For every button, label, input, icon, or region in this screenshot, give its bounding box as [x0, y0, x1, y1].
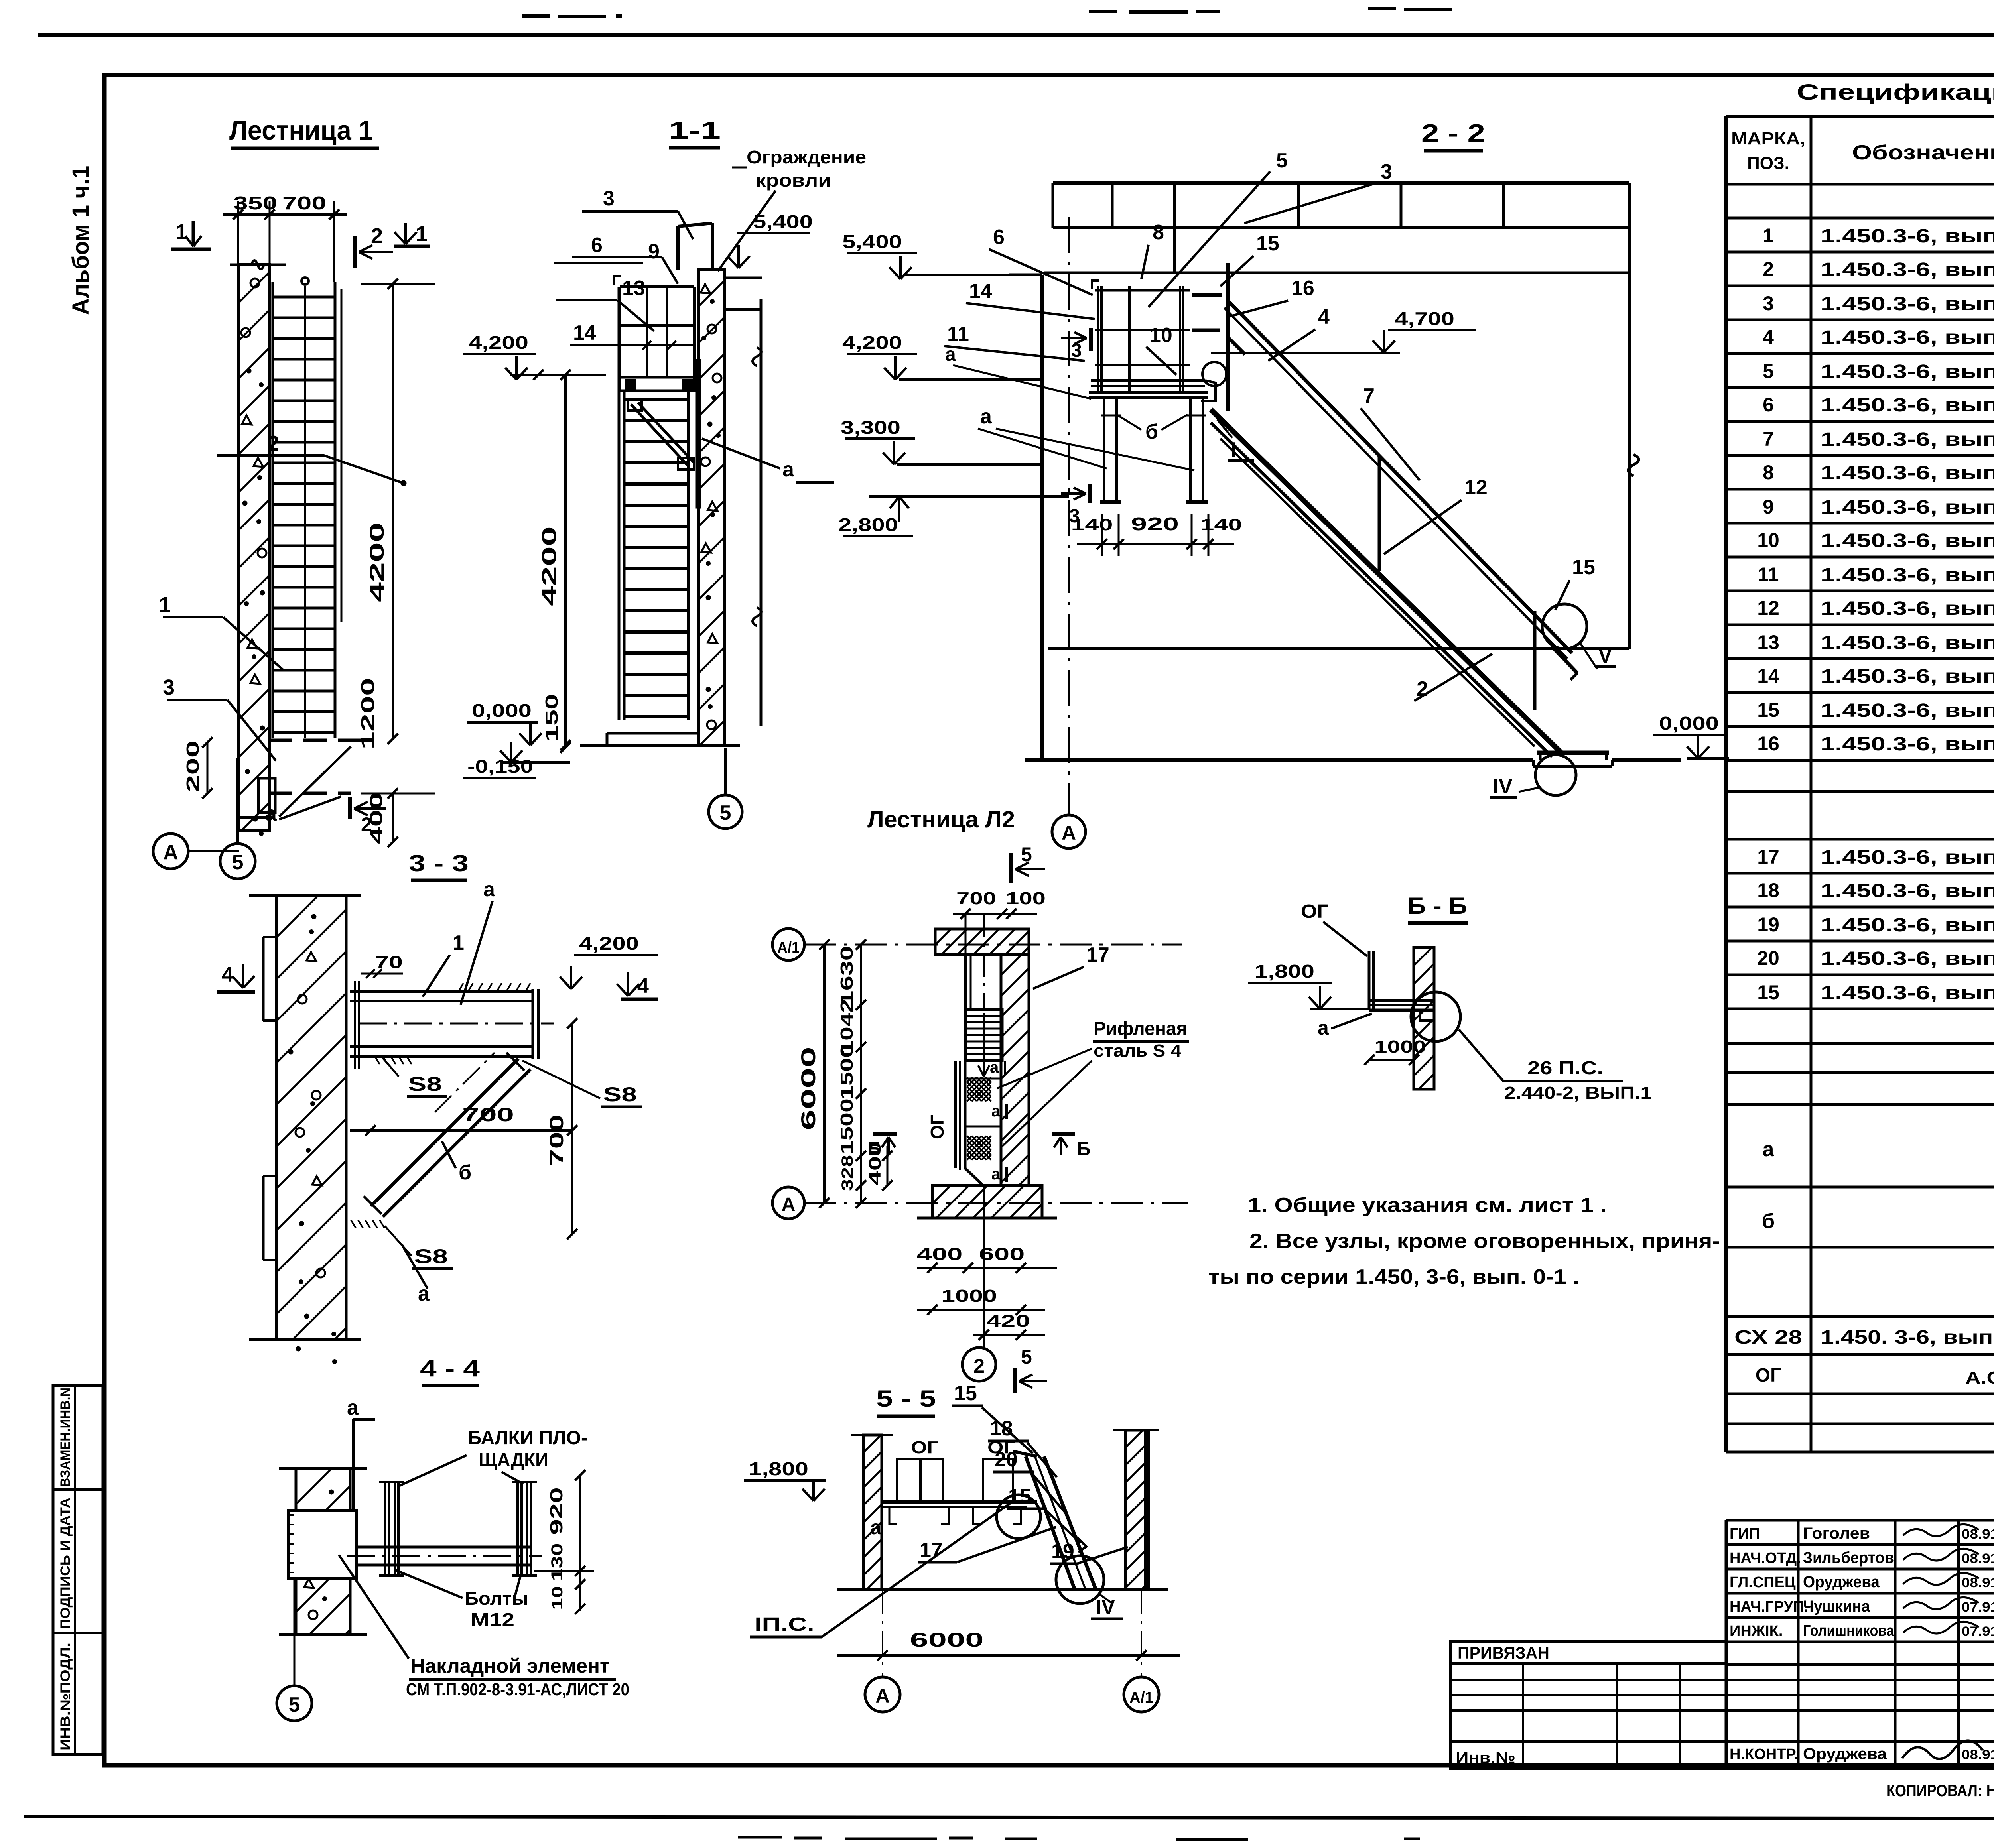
svg-text:920: 920	[547, 1487, 566, 1535]
svg-text:а: а	[1763, 1138, 1775, 1161]
svg-text:А: А	[782, 1194, 796, 1215]
svg-text:4: 4	[637, 974, 649, 998]
svg-text:1.450.3-6, вып.1: 1.450.3-6, вып.1	[1821, 915, 1994, 936]
svg-text:700: 700	[546, 1114, 567, 1166]
svg-text:1.450.3-6, вып.1: 1.450.3-6, вып.1	[1821, 598, 1994, 619]
1-1 ladder side rungs	[624, 398, 688, 401]
svg-text:9: 9	[648, 240, 660, 263]
svg-text:13: 13	[1757, 631, 1779, 653]
svg-text:а: а	[483, 878, 495, 901]
plan Л2 axis dash-dot lines	[804, 944, 1182, 946]
svg-text:1000: 1000	[1374, 1037, 1426, 1057]
2-2 platform slab	[1091, 379, 1205, 382]
svg-text:7: 7	[1763, 428, 1774, 450]
svg-text:1.450.3-6, вып.1: 1.450.3-6, вып.1	[1821, 666, 1994, 687]
svg-text:20: 20	[995, 1448, 1018, 1471]
svg-text:А: А	[1062, 822, 1076, 844]
svg-text:5: 5	[232, 851, 244, 874]
svg-text:ВЗАМЕН.ИНВ.N: ВЗАМЕН.ИНВ.N	[58, 1387, 73, 1487]
svg-text:ты по серии 1.450, 3-6, вып: ты по серии 1.450, 3-6, вып. 0-1 .	[1208, 1265, 1579, 1289]
svg-text:Лестница Л2: Лестница Л2	[867, 807, 1015, 832]
svg-text:ИНВ.№ПОДЛ.: ИНВ.№ПОДЛ.	[58, 1643, 73, 1750]
svg-text:Рифленая: Рифленая	[1094, 1018, 1187, 1039]
1-1 roof stack outline	[676, 226, 680, 270]
svg-text:1.450.3-6, вып.1: 1.450.3-6, вып.1	[1821, 530, 1994, 551]
plan Л2 foundation band	[932, 1185, 1042, 1218]
svg-text:10: 10	[1149, 324, 1172, 347]
svg-text:11: 11	[947, 323, 969, 346]
svg-text:17: 17	[1086, 943, 1109, 966]
svg-text:19: 19	[1051, 1540, 1074, 1563]
Лестница 1 detail circle 5	[220, 844, 255, 879]
svg-text:М12: М12	[471, 1609, 514, 1630]
Лестница 1 dim 200	[207, 742, 209, 793]
plan Л2 ОГ railing line	[954, 1061, 957, 1168]
4-4 axis circle 5	[277, 1686, 312, 1721]
svg-text:18: 18	[1757, 879, 1779, 901]
svg-text:5,400: 5,400	[753, 211, 813, 232]
svg-text:ПОДПИСЬ И ДАТА: ПОДПИСЬ И ДАТА	[58, 1498, 73, 1629]
svg-text:а: а	[991, 1165, 1001, 1183]
svg-text:Б: Б	[867, 1139, 881, 1160]
svg-text:11: 11	[1758, 563, 1779, 586]
Б-Б railing post	[1368, 951, 1371, 1010]
svg-text:14: 14	[969, 280, 992, 303]
svg-text:а: а	[1318, 1017, 1329, 1039]
svg-text:130: 130	[548, 1543, 566, 1581]
svg-text:400: 400	[917, 1244, 963, 1264]
svg-text:15: 15	[1757, 981, 1779, 1004]
Лестница 1 hidden platform dashed lines	[268, 739, 361, 742]
svg-text:2. Все узлы, кроме оговорен: 2. Все узлы, кроме оговоренных, приня-	[1249, 1230, 1720, 1253]
svg-text:3,300: 3,300	[841, 417, 900, 438]
3-3 connection at wall	[354, 981, 356, 1069]
svg-text:1.450.3-6, вып.1: 1.450.3-6, вып.1	[1821, 734, 1994, 755]
svg-text:5: 5	[1276, 149, 1288, 172]
3-3 strut end plates	[506, 1053, 524, 1071]
svg-text:1.450.3-6, вып.1: 1.450.3-6, вып.1	[1821, 880, 1994, 901]
5-5 ground line	[837, 1588, 1168, 1591]
1-1 dim 4200 vertical	[564, 375, 567, 748]
svg-text:ИНЖIК.: ИНЖIК.	[1730, 1623, 1783, 1639]
svg-text:15: 15	[1757, 699, 1779, 721]
plan Л2 wall edge above ladder	[964, 955, 967, 1010]
3-3 beam	[350, 990, 533, 993]
svg-text:140: 140	[1071, 515, 1113, 534]
svg-text:200: 200	[183, 740, 203, 792]
svg-text:4,200: 4,200	[579, 933, 639, 954]
svg-text:5,400: 5,400	[842, 231, 902, 252]
title block privyazan box	[1450, 1641, 1726, 1768]
svg-text:700: 700	[956, 889, 996, 908]
svg-text:1: 1	[1763, 224, 1774, 247]
svg-text:19: 19	[1757, 913, 1779, 936]
svg-text:А: А	[875, 1685, 890, 1707]
4-4 nakladnoy element plate	[288, 1511, 356, 1578]
svg-text:3: 3	[1071, 340, 1082, 361]
svg-text:14: 14	[573, 321, 596, 344]
svg-text:а: а	[347, 1396, 359, 1419]
svg-text:12: 12	[1464, 476, 1488, 499]
svg-text:1.450. 3-6, вып. 1: 1.450. 3-6, вып. 1	[1821, 1327, 1994, 1348]
svg-text:1.450.3-6, вып.1: 1.450.3-6, вып.1	[1821, 948, 1994, 969]
svg-text:Ограждение: Ограждение	[747, 147, 866, 167]
scan artifact dashes top edge	[522, 7, 1994, 17]
svg-text:4: 4	[1318, 305, 1330, 329]
svg-text:15: 15	[1572, 556, 1595, 579]
svg-text:1-1: 1-1	[669, 117, 721, 144]
svg-text:Болты: Болты	[465, 1588, 528, 1609]
svg-text:2,800: 2,800	[838, 514, 898, 535]
svg-text:2: 2	[1763, 258, 1774, 280]
2-2 axis circle А	[1052, 815, 1086, 848]
svg-text:3: 3	[163, 675, 175, 699]
svg-text:б: б	[1762, 1210, 1775, 1233]
svg-text:Обозначение: Обозначение	[1852, 141, 1994, 164]
svg-text:Б - Б: Б - Б	[1407, 893, 1467, 919]
plan Л2 centerline to circle 2	[983, 1185, 985, 1347]
svg-text:100: 100	[1006, 889, 1046, 908]
svg-text:20: 20	[1757, 947, 1779, 969]
svg-text:IП.С.: IП.С.	[755, 1614, 814, 1635]
svg-text:1.450.3-6, вып.1: 1.450.3-6, вып.1	[1821, 429, 1994, 450]
svg-text:12: 12	[1757, 597, 1779, 619]
svg-text:1500: 1500	[837, 1044, 857, 1100]
svg-text:5: 5	[720, 801, 731, 825]
svg-text:1.450.3-6, вып.1: 1.450.3-6, вып.1	[1821, 982, 1994, 1004]
svg-text:10: 10	[1757, 529, 1779, 551]
2-2 stair handrail	[1228, 301, 1572, 653]
svg-text:13: 13	[622, 277, 645, 300]
svg-text:5: 5	[289, 1693, 300, 1716]
svg-text:Спецификация элементов на л: Спецификация элементов на лестницы Л1, Л…	[1797, 79, 1994, 104]
svg-text:0,000: 0,000	[472, 700, 532, 721]
Б-Б detail circle	[1411, 992, 1460, 1041]
svg-text:1630: 1630	[837, 946, 857, 1006]
plan Л2 dim 6000 vertical	[823, 945, 826, 1203]
svg-text:ОГ: ОГ	[927, 1114, 948, 1139]
svg-text:Лестница 1: Лестница 1	[229, 115, 373, 146]
svg-text:ПОЗ.: ПОЗ.	[1747, 154, 1789, 173]
svg-text:ГИП: ГИП	[1730, 1525, 1760, 1542]
plan Л2 centerline top segment	[983, 913, 985, 1009]
svg-text:140: 140	[1200, 515, 1242, 534]
svg-text:ЩАДКИ: ЩАДКИ	[479, 1450, 548, 1471]
left margin stamp box grid	[53, 1386, 103, 1754]
Б-Б wall hatched	[1414, 947, 1434, 1089]
plan Л2 Б section marks	[873, 1132, 897, 1136]
svg-text:600: 600	[979, 1244, 1025, 1264]
plan Л2 ladder plan	[965, 1010, 1002, 1061]
svg-text:сталь S 4: сталь S 4	[1094, 1041, 1182, 1061]
3-3 beam weld ticks	[459, 983, 463, 991]
svg-text:2.440-2, ВЫП.1: 2.440-2, ВЫП.1	[1504, 1083, 1652, 1103]
svg-text:5: 5	[1021, 1346, 1032, 1368]
plan Л2 section mark 5 top	[1009, 853, 1013, 883]
5-5 axis circle А/1	[1124, 1677, 1159, 1712]
svg-text:а: а	[945, 344, 956, 365]
svg-text:S8: S8	[414, 1245, 448, 1267]
svg-text:4,700: 4,700	[1395, 308, 1454, 329]
Лестница 1 axis circle А	[153, 834, 188, 869]
svg-text:Чушкина: Чушкина	[1803, 1598, 1870, 1615]
plan Л2 vertical wall hatched	[1001, 955, 1029, 1186]
2-2 axis А dash-dot	[1068, 217, 1070, 814]
Лестница 1 bottom bracket	[258, 778, 275, 813]
scan artifact dashes bottom edge	[738, 1835, 1994, 1840]
plan Л2 axis circle 2	[962, 1348, 996, 1381]
2-2 detail circle I at stair top	[1202, 362, 1226, 386]
svg-text:-0,150: -0,150	[467, 756, 533, 777]
Лестница 1 dim 350/700 line	[223, 213, 347, 216]
plan Л2 top wall band hatched	[935, 929, 1029, 955]
5-5 axis circle А	[865, 1677, 900, 1712]
Лестница 1 ladder rungs	[273, 296, 335, 299]
svg-text:10: 10	[549, 1586, 566, 1610]
2-2 railing on platform	[1097, 286, 1099, 393]
svg-text:3: 3	[1381, 160, 1392, 183]
5-5 detail circle at stair foot	[1056, 1556, 1104, 1604]
svg-text:4: 4	[1763, 326, 1774, 348]
Лестница 1 section mark 2 top	[353, 236, 357, 268]
plan Л2 axis circle А/1	[772, 929, 804, 960]
2-2 landing plate	[1537, 751, 1609, 755]
svg-text:0,000: 0,000	[1659, 713, 1719, 734]
svg-text:Оруджева: Оруджева	[1803, 1745, 1887, 1763]
svg-text:15: 15	[954, 1382, 977, 1405]
svg-text:4 - 4: 4 - 4	[420, 1356, 480, 1382]
svg-text:4,200: 4,200	[469, 332, 528, 353]
1-1 axis detail circle 5	[709, 795, 742, 829]
2-2 intermediate floor line	[1048, 647, 1629, 650]
svg-text:16: 16	[1757, 732, 1779, 755]
4-4 bolt rod	[356, 1546, 530, 1549]
5-5 floor brackets а	[889, 1507, 897, 1524]
svg-text:17: 17	[1757, 846, 1779, 868]
2-2 platform legs	[1103, 398, 1105, 500]
2-2 left wall	[1040, 275, 1044, 760]
svg-text:6: 6	[1763, 394, 1774, 416]
svg-text:ОГ: ОГ	[1301, 901, 1329, 922]
svg-text:S8: S8	[408, 1073, 442, 1095]
2-2 detail circle V	[1542, 604, 1587, 649]
2-2 level lines to wall	[905, 274, 1042, 276]
5-5 right wall hatched	[1125, 1430, 1145, 1590]
5-5 platform floor	[882, 1500, 1037, 1504]
3-3 beam centerline	[359, 1023, 554, 1025]
svg-text:4200: 4200	[538, 526, 560, 606]
svg-text:НАЧ.ОТД.: НАЧ.ОТД.	[1730, 1550, 1801, 1567]
svg-text:2 - 2: 2 - 2	[1421, 120, 1485, 147]
svg-text:б: б	[1145, 420, 1158, 443]
1-1 ladder side rails	[618, 287, 621, 720]
svg-text:Гоголев: Гоголев	[1803, 1525, 1870, 1542]
svg-text:5 - 5: 5 - 5	[876, 1386, 936, 1412]
3-3 wall top/bottom break lines	[249, 894, 361, 897]
svg-text:а: а	[990, 1059, 999, 1076]
1-1 right wall lines	[725, 277, 762, 279]
2-2 stair bottom hook	[1551, 646, 1577, 673]
svg-text:а: а	[991, 1102, 1001, 1120]
sheet outer bottom border line	[24, 1817, 1994, 1819]
svg-text:1: 1	[416, 222, 428, 246]
2-2 stair posts	[1226, 263, 1230, 411]
svg-text:1.450.3-6, вып.1: 1.450.3-6, вып.1	[1821, 226, 1994, 247]
4-4 wall hatched	[296, 1468, 350, 1635]
svg-text:1.450.3-6, вып.1: 1.450.3-6, вып.1	[1821, 293, 1994, 315]
svg-text:1.450.3-6, вып.1: 1.450.3-6, вып.1	[1821, 361, 1994, 382]
svg-text:5: 5	[1763, 360, 1774, 382]
svg-text:6000: 6000	[910, 1629, 984, 1651]
svg-text:СХ 28: СХ 28	[1734, 1327, 1802, 1348]
svg-text:1.450.3-6, вып.1: 1.450.3-6, вып.1	[1821, 632, 1994, 653]
4-4 dims 920 130 10	[579, 1475, 581, 1611]
2-2 section 3 marks	[1089, 328, 1093, 351]
svg-text:7: 7	[1363, 384, 1375, 407]
svg-text:а: а	[418, 1282, 430, 1305]
svg-text:2: 2	[267, 431, 279, 455]
svg-text:1.450.3-6, вып.1: 1.450.3-6, вып.1	[1821, 700, 1994, 721]
svg-text:1,800: 1,800	[1255, 961, 1314, 982]
svg-text:26 П.С.: 26 П.С.	[1527, 1057, 1603, 1078]
Лестница 1 ladder rails	[272, 282, 274, 738]
Лестница 1 wall concrete hatch	[239, 265, 269, 830]
svg-text:1000: 1000	[941, 1286, 997, 1306]
svg-text:ОГ: ОГ	[911, 1438, 939, 1457]
svg-text:2: 2	[973, 1355, 985, 1377]
svg-text:1,800: 1,800	[749, 1458, 808, 1479]
1-1 wall concrete hatch	[699, 270, 725, 745]
svg-text:ПРИВЯЗАН: ПРИВЯЗАН	[1458, 1643, 1549, 1662]
Лестница 1 section mark 1 right	[404, 223, 407, 244]
1-1 diagonal strut	[631, 404, 688, 465]
svg-text:а: а	[980, 405, 992, 428]
svg-text:1.450.3-6, вып.1: 1.450.3-6, вып.1	[1821, 565, 1994, 586]
svg-text:14: 14	[1757, 665, 1779, 687]
svg-text:1. Общие указания см. лист 1: 1. Общие указания см. лист 1 .	[1248, 1194, 1607, 1217]
svg-text:9: 9	[1763, 496, 1774, 518]
svg-text:920: 920	[1131, 514, 1179, 534]
plan Л2 checkered steel patches	[967, 1077, 991, 1101]
svg-text:Голишникова: Голишникова	[1803, 1622, 1894, 1639]
svg-text:S8: S8	[603, 1083, 637, 1106]
svg-text:6: 6	[993, 226, 1005, 249]
Лестница 1 right extension line	[341, 289, 343, 622]
svg-text:1.450.3-6, вып.1: 1.450.3-6, вып.1	[1821, 259, 1994, 280]
2-2 ground line	[1025, 758, 1533, 762]
3-3 wall left pilaster bumps	[262, 937, 265, 1021]
svg-text:4200: 4200	[366, 522, 388, 602]
plan Л2 axis circle А	[772, 1187, 804, 1219]
svg-text:А: А	[163, 841, 178, 864]
svg-text:МАРКА,: МАРКА,	[1731, 129, 1805, 148]
Лестница 1 wall top edge with break	[230, 264, 286, 266]
svg-text:08.91: 08.91	[1962, 1747, 1994, 1762]
svg-text:1.450.3-6, вып.1: 1.450.3-6, вып.1	[1821, 847, 1994, 868]
svg-text:Накладной элемент: Накладной элемент	[410, 1655, 610, 1677]
svg-text:А.С.И.17: А.С.И.17	[1965, 1368, 1994, 1387]
svg-text:НАЧ.ГРУП.: НАЧ.ГРУП.	[1730, 1598, 1808, 1615]
svg-text:кровли: кровли	[755, 170, 831, 191]
title block staff table grid	[1726, 1519, 1994, 1522]
svg-text:ОГ: ОГ	[1756, 1365, 1781, 1386]
svg-text:Оруджева: Оруджева	[1803, 1573, 1880, 1591]
svg-text:IV: IV	[1493, 775, 1512, 798]
svg-text:а: а	[265, 802, 277, 825]
svg-text:3: 3	[1763, 292, 1774, 315]
svg-text:8: 8	[1763, 461, 1774, 484]
5-5 stair diagonals	[1026, 1456, 1075, 1590]
svg-text:150: 150	[542, 694, 562, 742]
2-2 ceiling band	[1053, 181, 1629, 185]
5-5 detail circle at floor edge	[997, 1495, 1040, 1539]
svg-text:420: 420	[986, 1311, 1030, 1331]
Лестница 1 ladder top circle	[301, 277, 309, 285]
svg-text:БАЛКИ ПЛО-: БАЛКИ ПЛО-	[468, 1427, 587, 1448]
svg-text:3 - 3: 3 - 3	[409, 850, 469, 876]
2-2 leg top angles	[1101, 415, 1121, 417]
svg-text:1500: 1500	[837, 1098, 857, 1154]
svg-text:700: 700	[462, 1104, 514, 1126]
2-2 right wall line	[1628, 183, 1631, 649]
svg-text:16: 16	[1291, 277, 1314, 300]
svg-text:б: б	[459, 1161, 471, 1184]
svg-text:Н.КОНТР.: Н.КОНТР.	[1730, 1746, 1798, 1763]
svg-text:6: 6	[591, 234, 603, 257]
svg-text:4,200: 4,200	[842, 332, 902, 353]
svg-text:1: 1	[175, 220, 187, 244]
1-1 channel bar a (dark)	[696, 359, 701, 508]
Лестница 1 dim 4200 vertical	[392, 284, 394, 739]
svg-text:а: а	[870, 1516, 882, 1539]
svg-text:70: 70	[375, 953, 403, 972]
2-2 stair stringer	[1211, 409, 1561, 753]
svg-text:1: 1	[159, 593, 171, 617]
svg-text:5: 5	[1021, 843, 1032, 866]
3-3 diagonal strut	[371, 1059, 518, 1206]
svg-text:1.450.3-6, вып.1: 1.450.3-6, вып.1	[1821, 395, 1994, 416]
svg-text:ГЛ.СПЕЦ.: ГЛ.СПЕЦ.	[1730, 1574, 1800, 1591]
svg-text:328: 328	[839, 1155, 856, 1191]
svg-text:6000: 6000	[797, 1047, 820, 1130]
5-5 left wall hatched	[863, 1435, 882, 1590]
sheet outer top border line	[38, 33, 1994, 37]
svg-text:а: а	[782, 458, 794, 481]
svg-text:1.450.3-6, вып.1: 1.450.3-6, вып.1	[1821, 497, 1994, 518]
svg-text:15: 15	[1256, 232, 1279, 255]
Лестница 1 dim 400	[392, 793, 394, 842]
svg-text:Инв.№: Инв.№	[1456, 1749, 1515, 1767]
svg-text:2: 2	[361, 813, 372, 836]
plan Л2 section mark 5 bottom	[1013, 1368, 1017, 1393]
svg-text:1200: 1200	[357, 678, 378, 750]
plan Л2 dim chain 1630/1042/1500/1500/328	[860, 945, 862, 1203]
svg-text:1.450.3-6, вып.1: 1.450.3-6, вып.1	[1821, 462, 1994, 484]
3-3 wall hatched	[276, 895, 346, 1340]
Лестница 1 section mark 2 bottom	[348, 797, 352, 819]
svg-text:8: 8	[1153, 221, 1164, 244]
3-3 weld ticks at strut base	[351, 1220, 356, 1228]
svg-text:Альбом 1 ч.1: Альбом 1 ч.1	[68, 166, 94, 315]
3-3 dim 700 vertical	[571, 1023, 573, 1234]
svg-text:СМ Т.П.902-8-3.91-АС,ЛИСТ 20: СМ Т.П.902-8-3.91-АС,ЛИСТ 20	[406, 1680, 629, 1699]
svg-text:700: 700	[282, 193, 326, 213]
svg-text:4: 4	[222, 963, 233, 986]
svg-text:Зильбертов: Зильбертов	[1803, 1549, 1894, 1567]
svg-text:А/1: А/1	[1129, 1689, 1153, 1706]
svg-text:Б: Б	[1077, 1139, 1091, 1160]
plan Л2 platform plan	[965, 1061, 1002, 1185]
